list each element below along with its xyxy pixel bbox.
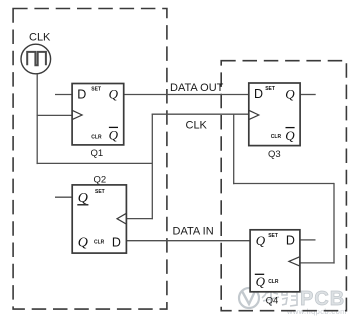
svg-text:CLR: CLR [271,134,282,140]
wire Q2 Qbar output stub [55,196,72,198]
label CLK (source) [29,32,51,44]
svg-text:Q: Q [256,274,266,289]
wire clock vertical far right [333,183,335,264]
wire CLK to Q3 clock [152,113,249,115]
svg-text:Q: Q [78,191,88,206]
svg-text:D: D [286,234,295,248]
flip-flop Q3 [249,83,300,146]
svg-text:SET: SET [268,233,278,239]
dashed enclosure left [13,9,167,310]
label Q3 [268,149,281,160]
svg-text:Q2: Q2 [93,174,106,185]
flip-flop Q4 [250,230,300,292]
watermark logo circle [239,286,259,308]
svg-text:DATA OUT: DATA OUT [170,82,224,94]
watermark url www.hqpcb.com [286,307,347,316]
label Q4 [266,296,279,307]
wire clock horizontal lower [37,162,153,164]
svg-text:SET: SET [265,86,275,92]
label Q1 [91,148,104,159]
svg-text:Q: Q [285,86,295,101]
svg-text:Q: Q [109,87,119,102]
svg-text:SET: SET [95,189,105,195]
flip-flop Q1 [72,84,124,145]
label DATA OUT [170,82,224,94]
label Q2 [93,174,106,185]
svg-text:D: D [77,87,86,101]
svg-text:CLR: CLR [91,134,102,140]
svg-text:CLR: CLR [268,279,279,285]
wire branch to Q1 clock [37,114,73,116]
wire DATA IN Q2.D to Q4.Q [126,240,250,242]
wire clock horizontal to far right [233,183,334,185]
svg-text:Q4: Q4 [266,296,279,307]
watermark character qiang [282,288,297,306]
wire Q1.D input stub [55,94,72,96]
svg-text:Q: Q [256,233,266,248]
svg-text:CLK: CLK [186,120,208,132]
svg-text:D: D [254,87,263,101]
wire Q4.D input stub [300,239,316,241]
wire to Q2 clock [126,218,152,220]
label CLK (net) [186,120,208,132]
dashed enclosure right [221,61,346,311]
wire DATA OUT Q1.Q to Q3.D [124,94,249,96]
watermark text PCB [300,288,345,310]
svg-text:DATA IN: DATA IN [173,226,214,238]
flip-flop Q2 [72,185,126,253]
svg-text:Q1: Q1 [91,148,104,159]
label DATA IN [173,226,214,238]
wire clock vertical mid [151,114,153,220]
wire Q3.Q output stub [300,94,316,96]
wire clock vertical from source [36,74,38,164]
wire clock branch down right [233,114,235,185]
svg-text:Q: Q [78,236,88,251]
wire to Q4 clock [300,262,335,264]
svg-text:D: D [112,236,121,250]
svg-text:CLR: CLR [94,240,105,246]
svg-text:Q: Q [109,128,119,143]
svg-text:SET: SET [91,87,101,93]
watermark character hua [262,288,279,306]
svg-text:CLK: CLK [29,32,51,44]
svg-text:Q3: Q3 [268,149,281,160]
clock source CLK [21,44,51,74]
svg-text:Q: Q [285,128,295,143]
